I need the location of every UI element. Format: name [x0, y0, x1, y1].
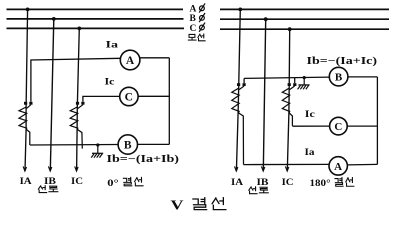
feeder IA2: [236, 9, 240, 171]
svg-text:C: C: [190, 24, 197, 34]
CT4 secondary mark: [293, 83, 296, 86]
voltcoil C1: [120, 87, 138, 105]
wire B2 right: [348, 76, 378, 78]
svg-text:Ia: Ia: [305, 148, 315, 158]
node B-left: [52, 17, 56, 21]
svg-text:0°: 0°: [107, 178, 118, 189]
svg-text:Ib=−(Ia+Ib): Ib=−(Ia+Ib): [107, 154, 180, 165]
ammeter A2: [329, 157, 347, 175]
bus C left segment: [7, 27, 185, 29]
caption gyeolseon: [193, 198, 226, 210]
CT1 secondary mark: [29, 102, 32, 105]
svg-text:Ic: Ic: [305, 110, 315, 120]
CT2 winding: [70, 107, 78, 129]
wire C2 right: [347, 125, 377, 127]
svg-text:C: C: [125, 92, 133, 104]
arrow IA2: [235, 166, 238, 171]
CT1 return lead: [26, 129, 30, 145]
svg-text:C: C: [334, 121, 342, 133]
ammeter A1: [120, 50, 140, 70]
svg-text:IC: IC: [71, 177, 83, 187]
label seonro right: [249, 187, 268, 194]
wire C1 right: [138, 95, 169, 97]
feeder IC2: [287, 29, 289, 171]
svg-text:180°: 180°: [310, 178, 331, 189]
svg-text:Ia: Ia: [106, 41, 119, 51]
CT3 winding: [232, 88, 239, 112]
wire Ic to C2: [292, 125, 329, 127]
wire A2 right: [347, 163, 377, 166]
CT2 secondary mark: [81, 102, 84, 105]
bus B right segment: [220, 18, 389, 20]
CT4 winding: [282, 88, 289, 112]
node A-right: [238, 7, 242, 11]
label gyeolseon left: [123, 177, 143, 185]
wire A1 right: [140, 57, 169, 59]
arrow IA: [23, 166, 26, 171]
feeder IB: [50, 19, 54, 171]
CT4 secondary join: [290, 86, 295, 90]
svg-text:IA: IA: [231, 178, 243, 188]
CT2 secondary join: [78, 105, 83, 109]
svg-text:A: A: [334, 161, 342, 173]
arrow IC: [75, 166, 78, 171]
node C-left: [77, 27, 81, 31]
wire Ia to A2: [244, 163, 330, 165]
voltcoil C2: [330, 117, 348, 135]
feeder IA: [25, 9, 28, 171]
label bus(moseon): [188, 34, 205, 41]
label gyeolseon right: [335, 178, 354, 187]
arrow IB2: [261, 166, 264, 171]
CT2 primary mark: [76, 102, 79, 105]
node C-right: [288, 27, 292, 31]
svg-text:A: A: [126, 55, 135, 67]
svg-text:A: A: [190, 5, 197, 15]
CT3 return lead: [238, 113, 243, 165]
CT4 secondary lead up: [294, 78, 296, 83]
svg-text:B: B: [190, 14, 197, 24]
CT1 secondary lead to A-meter: [31, 58, 120, 102]
svg-text:Ic: Ic: [105, 78, 115, 88]
CT3 secondary mark: [243, 83, 246, 86]
CT1 primary mark: [24, 102, 27, 105]
feeder IB2: [263, 19, 265, 171]
arrow IB: [48, 166, 51, 171]
ammeter B2: [329, 67, 348, 86]
CT3 secondary lead up: [243, 78, 245, 83]
bus A right segment: [220, 8, 389, 10]
node B-right: [264, 17, 268, 21]
wire return to B1: [30, 144, 118, 147]
CT1 winding: [19, 107, 27, 129]
CT2 return lead: [77, 129, 82, 148]
ground right: [298, 76, 310, 89]
ground left: [91, 143, 103, 157]
svg-text:B: B: [335, 72, 343, 84]
CT4 return lead: [289, 113, 293, 126]
CT4 primary mark: [288, 83, 291, 86]
CT1 secondary join: [26, 105, 31, 109]
ammeter B1: [118, 135, 137, 154]
CT3 primary mark: [237, 83, 240, 86]
svg-text:Ib=−(Ia+Ic): Ib=−(Ia+Ic): [307, 56, 378, 67]
node A-left: [26, 7, 30, 11]
bus B left segment: [7, 18, 184, 20]
svg-text:IC: IC: [282, 178, 294, 188]
right riser left-circuit: [168, 58, 170, 145]
label seonro left: [38, 186, 57, 193]
wire common to B2: [244, 77, 329, 78]
svg-text:B: B: [124, 140, 132, 152]
svg-text:V: V: [171, 199, 184, 214]
bus A left segment: [7, 8, 184, 10]
bus C right segment: [220, 28, 389, 30]
wire B1 right: [138, 143, 170, 145]
CT2 secondary lead to C-meter: [83, 96, 120, 101]
feeder IC: [77, 28, 80, 171]
arrow IC2: [285, 166, 288, 171]
svg-text:IA: IA: [20, 177, 32, 187]
CT3 secondary join: [239, 86, 244, 90]
right riser right-circuit: [376, 77, 378, 164]
